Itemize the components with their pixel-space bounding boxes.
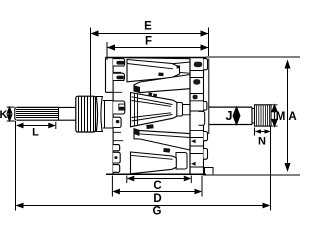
rotor bottom right step: [205, 168, 214, 175]
right plate slot 2: [193, 79, 200, 84]
claw finger 2 left-pointing: [134, 75, 190, 93]
right plate structure lines: [190, 71, 204, 168]
right plate tab 3: [204, 132, 208, 141]
left plate slot 2: [116, 76, 124, 80]
svg-text:M: M: [276, 111, 286, 123]
dimension K: [7, 107, 12, 121]
left plate tab 5: [113, 145, 120, 151]
dark accent lower-left: [146, 124, 153, 129]
claw 5 fold line: [131, 155, 173, 159]
left shaft splined section: [15, 107, 59, 120]
left plate rim: [106, 58, 114, 93]
dimension N: [255, 129, 272, 133]
dimension D: [112, 189, 202, 195]
dimension L tick right: [55, 122, 57, 129]
svg-text:D: D: [153, 193, 161, 205]
right plate tick 1: [191, 139, 196, 143]
left plate tab 4: [113, 117, 121, 127]
right shaft: [209, 107, 252, 124]
left plate tab 1: [113, 59, 125, 66]
svg-text:A: A: [288, 111, 296, 123]
rotor bottom edge: [106, 173, 206, 175]
claw finger 4 left-pointing: [134, 129, 190, 150]
dimension E extension line left: [90, 28, 92, 97]
claw 3 fold lines: [132, 93, 173, 126]
left plate slot 4: [116, 120, 120, 123]
shaft root line: [208, 59, 210, 135]
dimension E: [91, 30, 209, 36]
dimension K ticks: [7, 107, 15, 121]
right plate slot 1: [194, 62, 202, 67]
dimension C extension lines: [127, 176, 192, 184]
svg-text:F: F: [145, 36, 152, 48]
hub cylinder: [103, 101, 113, 129]
left plate connector lines: [113, 66, 124, 92]
svg-text:L: L: [32, 127, 39, 139]
claw finger 3 big right-pointing: [177, 103, 183, 117]
right claw-tip boundary: [189, 59, 191, 175]
shaft groove: [252, 106, 255, 127]
left shaft plain section: [59, 107, 76, 120]
claw finger top band: [127, 58, 190, 69]
A top extension line: [206, 56, 300, 58]
dimension D extension lines: [112, 176, 202, 197]
left plate tab 3: [113, 101, 125, 114]
left plate slot 3: [119, 107, 125, 110]
dimension G extension left: [15, 121, 17, 211]
dimension F extension line left: [106, 42, 108, 60]
left plate mid lines: [113, 132, 123, 140]
right plate tab 1: [204, 59, 208, 70]
dark accent pair center: [148, 92, 157, 97]
dimension J: [233, 107, 239, 124]
claw 4 tip shadow: [134, 129, 140, 136]
dimension L: [16, 123, 56, 129]
right plate tick 2: [191, 162, 196, 166]
dark accent lower-right: [163, 148, 170, 153]
claw 2 tip shadow: [134, 85, 140, 92]
dark accent upper: [158, 72, 163, 76]
svg-text:N: N: [258, 136, 266, 148]
right plate tab 4: [204, 149, 208, 160]
A bottom extension line: [203, 174, 300, 176]
claw finger 5 bottom right-pointing: [176, 153, 187, 170]
dimension F: [107, 44, 209, 50]
left plate slot 1: [116, 61, 124, 65]
knurled drum: [76, 96, 96, 132]
M ticks: [271, 105, 278, 126]
svg-text:C: C: [153, 180, 161, 192]
claw 4 fold line: [139, 134, 190, 138]
dimension E/F extension line right: [208, 28, 210, 57]
dimension G: [16, 203, 271, 209]
right plate slot 3: [193, 95, 198, 99]
claw 1 fold line: [127, 64, 173, 69]
right plate face: [203, 58, 205, 175]
svg-text:E: E: [144, 21, 152, 33]
left plate tab 2: [113, 73, 124, 80]
dimension A: [285, 60, 291, 173]
dimension N extension left: [254, 128, 256, 136]
left plate tab 7: [113, 165, 120, 173]
claw finger 1 right-pointing: [127, 60, 180, 82]
concave ring: [96, 97, 104, 132]
left plate tab 6: [113, 152, 120, 163]
svg-text:G: G: [153, 206, 162, 218]
dimension C: [127, 176, 192, 182]
left plate slot 6: [114, 156, 117, 159]
right hub block: [199, 111, 205, 125]
threaded end: [255, 105, 272, 126]
dimension M: [272, 105, 277, 126]
right plate tab 2: [204, 102, 207, 111]
dimension G extension right: [270, 127, 272, 211]
left plate tab 3 bracket: [119, 104, 125, 110]
svg-text:K: K: [0, 109, 8, 121]
svg-text:J: J: [226, 109, 233, 123]
left plate face: [112, 58, 114, 175]
rotor top edge: [106, 57, 207, 59]
